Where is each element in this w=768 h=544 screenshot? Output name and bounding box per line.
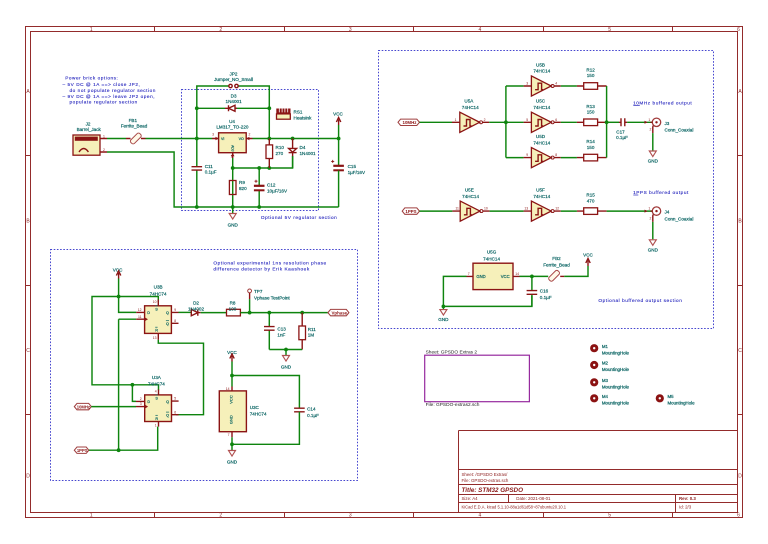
svg-text:74HC14: 74HC14 <box>533 105 550 110</box>
svg-text:1N4002: 1N4002 <box>188 306 205 311</box>
mounting hole M3 <box>590 378 629 389</box>
svg-text:GND: GND <box>648 159 659 164</box>
svg-text:U5C: U5C <box>536 99 546 104</box>
svg-text:R15: R15 <box>586 193 595 198</box>
wire branch down to U3A D <box>132 385 136 402</box>
ground symbol (U3C) <box>227 444 238 464</box>
junction main rail at C15/VCC <box>337 137 341 141</box>
svg-text:MountingHole: MountingHole <box>668 400 696 405</box>
svg-text:9: 9 <box>174 308 176 312</box>
svg-text:GND: GND <box>476 274 485 279</box>
svg-text:D4: D4 <box>300 145 306 150</box>
svg-text:2: 2 <box>249 133 251 137</box>
junction combine bus <box>605 120 609 124</box>
svg-text:U5E: U5E <box>465 187 474 192</box>
svg-text:do not populate regulator sect: do not populate regulator section <box>70 88 156 93</box>
svg-text:100: 100 <box>229 306 237 311</box>
power flag VCC (buffer) <box>583 252 593 266</box>
svg-text:Size: A4: Size: A4 <box>462 496 479 501</box>
wire FB1 to U4 VI <box>146 138 213 140</box>
svg-text:6: 6 <box>555 118 557 122</box>
svg-text:2: 2 <box>140 397 142 401</box>
connector J4 Conn_Coaxial <box>645 207 661 222</box>
svg-text:D3: D3 <box>231 94 237 99</box>
svg-text:C17: C17 <box>616 129 625 134</box>
svg-text:Conn_Coaxial: Conn_Coaxial <box>665 128 694 133</box>
svg-text:1: 1 <box>90 513 93 519</box>
wire bus to U5B <box>506 85 524 87</box>
svg-text:VCC: VCC <box>333 112 343 117</box>
mounting hole M5 <box>656 394 695 405</box>
svg-text:1: 1 <box>648 118 650 122</box>
svg-text:C13: C13 <box>277 327 286 332</box>
wire fanout bus vertical <box>505 86 507 158</box>
svg-text:MountingHole: MountingHole <box>602 400 630 405</box>
svg-text:Q: Q <box>166 414 169 418</box>
wire VCC to C15 <box>338 125 340 166</box>
svg-text:1µF/16V: 1µF/16V <box>348 170 366 175</box>
svg-text:U5A: U5A <box>464 99 474 104</box>
wire J3 shield to GND <box>652 133 654 150</box>
mounting hole M1 <box>590 344 629 355</box>
svg-text:A: A <box>738 89 742 95</box>
svg-text:5: 5 <box>608 513 611 519</box>
ferrite bead FB2 <box>548 270 564 282</box>
svg-text:U4: U4 <box>229 119 235 124</box>
connector J3 Conn_Coaxial <box>645 118 661 133</box>
svg-text:R14: R14 <box>586 139 595 144</box>
svg-text:Q: Q <box>166 400 169 404</box>
svg-text:1N4001: 1N4001 <box>300 151 317 156</box>
ground symbol (J3) <box>648 151 659 164</box>
svg-text:Rev: 0.3: Rev: 0.3 <box>679 496 696 501</box>
svg-text:4: 4 <box>479 27 482 33</box>
svg-text:1nF: 1nF <box>277 332 285 337</box>
svg-text:5: 5 <box>174 397 176 401</box>
svg-text:150: 150 <box>587 145 595 150</box>
global label 10MHz (detector input) <box>74 403 91 409</box>
capacitor C12 polarized <box>254 168 265 207</box>
svg-text:3: 3 <box>140 402 142 406</box>
wire U3B Q to D2 <box>179 311 192 313</box>
svg-text:C14: C14 <box>307 407 316 412</box>
inverter U5A 74HC14 <box>452 112 489 132</box>
svg-text:2: 2 <box>650 217 652 221</box>
svg-text:Optional 5V regulator section: Optional 5V regulator section <box>261 215 337 220</box>
svg-text:8: 8 <box>555 153 557 157</box>
svg-text:11: 11 <box>455 207 459 211</box>
svg-text:Ferrite_Bead: Ferrite_Bead <box>543 262 570 267</box>
svg-text:0.1µF: 0.1µF <box>616 135 628 140</box>
svg-text:GND: GND <box>438 317 449 322</box>
svg-text:– 5V DC @ 1A ==> close JP2,: – 5V DC @ 1A ==> close JP2, <box>63 82 141 87</box>
svg-text:TP7: TP7 <box>254 289 263 294</box>
junction U3C gnd <box>230 442 234 446</box>
global label 10MHz (buffer input) <box>398 119 420 125</box>
svg-text:3: 3 <box>349 513 352 519</box>
wire bus to U5C <box>506 121 524 123</box>
svg-text:C: C <box>738 348 742 354</box>
inverter U5B 74HC14 <box>524 76 561 96</box>
svg-text:74HC14: 74HC14 <box>533 140 550 145</box>
wire C17 to J3 <box>627 121 652 123</box>
svg-text:74HC74: 74HC74 <box>250 412 267 417</box>
note: optional buffered output section box <box>379 51 714 329</box>
svg-text:File: GPSDO-extras.sch: File: GPSDO-extras.sch <box>462 478 509 483</box>
svg-text:U5G: U5G <box>487 249 497 254</box>
junction TP7 <box>248 311 252 315</box>
resistor R11 1M <box>299 313 306 350</box>
svg-text:7: 7 <box>468 272 470 276</box>
note: optional 5V regulator section box <box>182 90 319 211</box>
junction main rail at D4 <box>291 137 295 141</box>
svg-text:6: 6 <box>737 513 740 519</box>
wire 1PPS riser <box>118 319 120 450</box>
svg-text:Sheet: /GPSDO Extras/: Sheet: /GPSDO Extras/ <box>462 472 509 477</box>
wire D2 to R8 <box>201 312 227 314</box>
svg-text:74HC14: 74HC14 <box>462 105 479 110</box>
svg-text:M4: M4 <box>602 394 609 399</box>
resistor R9 <box>229 181 236 195</box>
wire bus to U5D <box>506 157 524 159</box>
resistor R13 150 <box>561 119 607 126</box>
svg-text:5: 5 <box>608 27 611 33</box>
svg-text:RS1: RS1 <box>294 109 303 114</box>
resistor R8 100 <box>227 309 270 316</box>
connector J2 barrel jack <box>73 135 107 156</box>
svg-text:11: 11 <box>138 315 142 319</box>
svg-text:9: 9 <box>526 153 528 157</box>
svg-text:Vphase: Vphase <box>331 310 347 315</box>
junction C13 <box>267 311 271 315</box>
svg-text:VI: VI <box>221 137 224 141</box>
wire 10MHz to U3A clock <box>91 406 136 408</box>
wire R15 to J4 <box>607 210 653 212</box>
svg-text:14: 14 <box>515 272 519 276</box>
svg-text:Q: Q <box>166 322 169 326</box>
svg-text:KiCad E.D.A. kicad 5.1.10-88a: KiCad E.D.A. kicad 5.1.10-88a1d61d58~87u… <box>462 504 567 509</box>
svg-text:J2: J2 <box>86 122 91 127</box>
svg-text:1PPS: 1PPS <box>405 209 416 214</box>
svg-text:Optional experimental 1ns reso: Optional experimental 1ns resolution pha… <box>213 260 326 265</box>
svg-text:10MHz: 10MHz <box>77 404 90 409</box>
wire U3C vcc branch to C14 <box>232 376 299 409</box>
svg-text:M2: M2 <box>602 361 609 366</box>
svg-text:7: 7 <box>228 433 230 437</box>
wire ADJ rail <box>233 156 293 168</box>
heatsink RS1 <box>276 109 290 120</box>
resistor R15 470 <box>561 208 607 215</box>
ground symbol (J4) <box>648 240 659 253</box>
power flag VCC (flip-flops) <box>113 267 123 278</box>
svg-text:10: 10 <box>484 207 488 211</box>
capacitor C15 polarized <box>331 160 344 207</box>
svg-text:1: 1 <box>648 207 650 211</box>
svg-text:1: 1 <box>455 118 457 122</box>
wire 1PPS to U3A reset <box>89 427 158 451</box>
svg-text:VCC: VCC <box>228 395 233 404</box>
inverter U5E 74HC14 <box>452 201 489 221</box>
svg-text:B: B <box>738 218 742 224</box>
svg-text:D: D <box>738 473 742 479</box>
resistor R10 <box>266 139 273 169</box>
global label 1PPS (buffer input) <box>402 208 419 214</box>
svg-text:1: 1 <box>231 155 233 159</box>
ferrite bead FB1 <box>126 132 146 144</box>
diode D4 1N4001 <box>289 139 297 169</box>
svg-text:Barrel_Jack: Barrel_Jack <box>77 127 102 132</box>
svg-text:– 9V DC @ 1A ==> leave JP2 ope: – 9V DC @ 1A ==> leave JP2 open, <box>63 94 156 99</box>
svg-text:3: 3 <box>526 82 528 86</box>
junction gnd rail C12 <box>257 205 261 209</box>
svg-text:2: 2 <box>219 513 222 519</box>
junction ADJ rail at R9 <box>231 166 235 170</box>
junction fanout bus <box>504 120 508 124</box>
power unit U5G 74HC14 <box>467 263 520 289</box>
svg-text:74HC14: 74HC14 <box>483 257 500 262</box>
svg-text:C: C <box>26 348 30 354</box>
svg-text:2: 2 <box>219 27 222 33</box>
flip-flop U3B 74HC74 <box>136 300 178 340</box>
junction U3A D branch <box>131 383 135 387</box>
svg-text:S: S <box>155 397 158 401</box>
svg-text:R13: R13 <box>586 104 595 109</box>
svg-text:470: 470 <box>587 198 595 203</box>
svg-text:10MHz: 10MHz <box>403 120 418 125</box>
svg-text:270: 270 <box>276 151 284 156</box>
svg-text:1PPS buffered output: 1PPS buffered output <box>633 190 689 195</box>
svg-text:MountingHole: MountingHole <box>602 367 630 372</box>
svg-text:1PPS: 1PPS <box>77 448 88 453</box>
svg-text:820: 820 <box>239 186 247 191</box>
svg-text:D: D <box>26 473 30 479</box>
svg-text:3: 3 <box>212 133 214 137</box>
svg-text:R8: R8 <box>230 301 236 306</box>
svg-text:10: 10 <box>153 300 157 304</box>
junction VCC branch <box>117 295 121 299</box>
svg-text:Optional buffered output secti: Optional buffered output section <box>598 298 682 303</box>
global label Vphase <box>328 309 349 315</box>
svg-text:File: GPSDO-extras2.sch: File: GPSDO-extras2.sch <box>426 402 480 408</box>
svg-text:R: R <box>155 417 158 421</box>
junction main rail at JP2 left <box>195 137 199 141</box>
junction ADJ rail at C12 <box>257 166 261 170</box>
inverter U5D 74HC14 <box>524 148 561 168</box>
ground symbol (U5G) <box>438 306 449 322</box>
svg-text:4: 4 <box>555 82 557 86</box>
svg-text:74HC14: 74HC14 <box>462 194 479 199</box>
svg-text:4: 4 <box>479 513 482 519</box>
mounting hole M4 <box>590 394 629 405</box>
junction 1PPS riser <box>117 448 121 452</box>
capacitor C16 0.1uF <box>527 276 538 306</box>
svg-text:M3: M3 <box>602 378 609 383</box>
jumper JP2 Jumper_NO_Small <box>197 84 269 138</box>
wire U3B reset to U3A Qbar <box>158 340 203 415</box>
svg-text:10µF/16V: 10µF/16V <box>267 188 288 193</box>
svg-text:U5B: U5B <box>536 62 545 67</box>
svg-text:GND: GND <box>228 415 233 424</box>
svg-text:GND: GND <box>227 459 238 464</box>
junction gnd rail C11 <box>195 205 199 209</box>
wire U5E to U5F <box>490 210 524 212</box>
svg-text:10MHz buffered output: 10MHz buffered output <box>633 100 692 105</box>
svg-text:Q: Q <box>166 311 169 315</box>
svg-text:FB1: FB1 <box>129 118 138 123</box>
svg-text:3: 3 <box>349 27 352 33</box>
wire U5B out to R12 <box>561 85 577 87</box>
note: power brick options text <box>63 75 156 104</box>
junction gnd link <box>284 348 288 352</box>
svg-text:12: 12 <box>555 207 559 211</box>
wire VCC to U3C pin14 <box>231 362 233 387</box>
wire C13/R11 ground link <box>269 349 302 351</box>
svg-text:150: 150 <box>587 110 595 115</box>
svg-text:U5D: U5D <box>536 134 546 139</box>
svg-text:13: 13 <box>524 207 528 211</box>
svg-text:Date: 2021-08-01: Date: 2021-08-01 <box>516 496 551 501</box>
wire J2 pin1 to FB1 <box>107 138 126 140</box>
svg-text:6: 6 <box>174 410 176 414</box>
svg-text:74HC14: 74HC14 <box>533 194 550 199</box>
svg-text:GND: GND <box>648 248 659 253</box>
svg-text:D: D <box>147 311 150 315</box>
power flag VCC (regulator output) <box>333 112 343 126</box>
svg-text:Vphase TestPoint: Vphase TestPoint <box>254 295 290 300</box>
wire VCC branch to U3B set pin <box>119 297 159 303</box>
svg-text:14: 14 <box>226 387 230 391</box>
inverter U5F 74HC14 <box>524 201 561 221</box>
note: phase detector section box <box>51 250 358 481</box>
wire U5G VCC to FB2 <box>520 275 549 277</box>
svg-text:150: 150 <box>587 73 595 78</box>
svg-text:ADJ: ADJ <box>231 145 235 152</box>
svg-text:1: 1 <box>90 27 93 33</box>
wire ground rail <box>197 206 339 208</box>
wire FB2 to VCC <box>564 266 588 276</box>
svg-text:U3B: U3B <box>154 285 163 290</box>
svg-text:C16: C16 <box>540 289 549 294</box>
junction U3C vcc branch <box>230 374 234 378</box>
svg-text:R: R <box>155 329 158 333</box>
svg-text:Conn_Coaxial: Conn_Coaxial <box>665 217 694 222</box>
svg-text:J3: J3 <box>665 121 670 126</box>
svg-text:D: D <box>147 400 150 404</box>
svg-text:0.1µF: 0.1µF <box>540 295 552 300</box>
wire U5G GND loop <box>443 276 532 306</box>
svg-text:J4: J4 <box>665 210 670 215</box>
svg-text:JP2: JP2 <box>230 71 238 76</box>
svg-text:0.1µF: 0.1µF <box>307 413 319 418</box>
junction main rail at R10 <box>267 137 271 141</box>
svg-text:1N4001: 1N4001 <box>226 99 243 104</box>
wire 10MHz label to U5A <box>420 121 453 123</box>
capacitor C11 <box>192 139 203 208</box>
wire output combine bus <box>606 86 608 158</box>
svg-text:U3C: U3C <box>250 405 260 410</box>
junction ADJ rail at R10 <box>267 166 271 170</box>
wire U3B clock from 1PPS riser <box>119 318 137 320</box>
svg-text:VCC: VCC <box>501 274 510 279</box>
wire J2 pin2 down and right to ground rail <box>107 152 197 207</box>
svg-text:74HC74: 74HC74 <box>150 291 167 296</box>
diode D3 1N4001 <box>225 105 237 111</box>
junction R11 <box>300 311 304 315</box>
svg-text:2: 2 <box>103 148 105 152</box>
svg-text:12: 12 <box>138 308 142 312</box>
junction U5G VCC / C16 <box>530 275 534 279</box>
sheet GPSDO Extras 2 <box>425 349 530 408</box>
junction gnd rail R9/GND <box>231 205 235 209</box>
svg-text:VCC: VCC <box>583 252 593 257</box>
svg-text:D2: D2 <box>193 301 199 306</box>
svg-text:2: 2 <box>484 118 486 122</box>
svg-text:Heatsink: Heatsink <box>294 115 313 120</box>
svg-text:A: A <box>26 89 30 95</box>
wire C14 bottom loop to U3C pin7 <box>232 412 299 445</box>
diode D2 1N4002 <box>191 309 200 315</box>
capacitor C14 0.1uF <box>294 408 305 412</box>
svg-text:13: 13 <box>153 336 157 340</box>
svg-text:Jumper_NO_Small: Jumper_NO_Small <box>214 77 253 82</box>
svg-text:LM317_TO-220: LM317_TO-220 <box>216 125 249 130</box>
svg-text:6: 6 <box>737 27 740 33</box>
test point TP7 <box>248 289 252 313</box>
global label 1PPS (detector input) <box>74 447 88 453</box>
wire 1PPS label to U5E <box>420 210 453 212</box>
wire D3 row <box>197 108 269 138</box>
wire J4 shield to GND <box>652 222 654 239</box>
svg-text:difference detector by Erik Ka: difference detector by Erik Kaashoek <box>213 267 309 272</box>
svg-text:FB2: FB2 <box>552 256 561 261</box>
inverter U5C 74HC14 <box>524 112 561 132</box>
svg-text:8: 8 <box>174 319 176 323</box>
svg-text:C11: C11 <box>205 164 214 169</box>
svg-text:0.1µF: 0.1µF <box>205 169 217 174</box>
svg-text:4: 4 <box>155 390 157 394</box>
power flag VCC (U3C) <box>227 350 237 362</box>
svg-text:U5F: U5F <box>536 187 545 192</box>
svg-text:Power brick options:: Power brick options: <box>65 75 118 80</box>
resistor R12 150 <box>577 83 607 90</box>
wire U4 ADJ down <box>232 158 234 207</box>
svg-text:1: 1 <box>155 423 157 427</box>
svg-text:GND: GND <box>281 364 292 369</box>
ground symbol (C13/R11) <box>281 350 292 370</box>
svg-text:C15: C15 <box>348 164 357 169</box>
ground symbol (regulator) <box>228 207 239 227</box>
wire U5A out to fanout bus <box>489 121 506 123</box>
svg-text:Sheet: GPSDO Extras 2: Sheet: GPSDO Extras 2 <box>426 349 478 355</box>
svg-text:R12: R12 <box>586 68 595 73</box>
svg-text:74HC74: 74HC74 <box>148 381 165 386</box>
svg-text:Title: STM32 GPSDO: Title: STM32 GPSDO <box>462 487 524 494</box>
junction U5G gnd corner <box>442 305 446 309</box>
power unit U3C 74HC74 <box>219 387 246 438</box>
svg-text:MountingHole: MountingHole <box>602 350 630 355</box>
resistor R14 150 <box>561 154 607 161</box>
svg-text:5: 5 <box>526 118 528 122</box>
wire to Vphase label <box>269 312 328 314</box>
wire VCC down to U3B D <box>119 279 137 313</box>
svg-text:2: 2 <box>650 128 652 132</box>
svg-text:Id: 2/3: Id: 2/3 <box>679 504 692 509</box>
wire VCC branch left/down to U3A <box>92 297 159 391</box>
note: phase detector caption <box>213 260 326 271</box>
junction at JP2 right leg / D3 <box>267 106 271 110</box>
svg-text:MountingHole: MountingHole <box>602 384 630 389</box>
capacitor C17 0.1uF <box>619 118 627 126</box>
